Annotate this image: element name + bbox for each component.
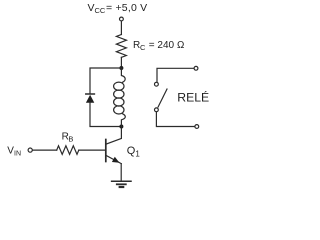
base bar: [105, 140, 107, 162]
relay terminal top right: [194, 66, 198, 70]
label Q1: [127, 145, 141, 158]
svg-text:C: C: [140, 43, 146, 52]
node top junction dot: [119, 66, 123, 70]
wire RB to Q1 base: [79, 149, 105, 151]
relay fixed contact upper: [155, 82, 159, 86]
node bottom junction dot: [119, 125, 123, 129]
svg-text:RELÉ: RELÉ: [177, 90, 209, 105]
svg-text:B: B: [68, 134, 73, 143]
svg-text:CC: CC: [95, 6, 106, 15]
label RB: [62, 131, 74, 143]
relay terminal bottom right: [195, 125, 199, 129]
collector lead: [106, 128, 122, 144]
resistor RC: [116, 35, 126, 58]
diode D1 flyback: [86, 94, 95, 103]
svg-text:Q: Q: [127, 145, 136, 157]
wire VCC terminal to RC: [120, 21, 122, 34]
relay movable contact lower: [155, 108, 159, 112]
transistor Q1: [106, 128, 122, 164]
relay common contact wire (top): [157, 68, 194, 82]
wire diode to bottom rung: [90, 103, 121, 127]
resistor RB: [57, 146, 79, 155]
label RC value: [133, 40, 185, 52]
svg-text:IN: IN: [14, 150, 21, 157]
wire RC to node top: [120, 57, 122, 68]
relay switch arm: [158, 89, 167, 107]
ground: [112, 181, 131, 187]
svg-text:V: V: [88, 2, 95, 14]
wire top rung to diode branch: [90, 68, 121, 93]
svg-text:1: 1: [135, 149, 140, 158]
emitter arrow: [112, 157, 120, 163]
svg-text:= +5,0 V: = +5,0 V: [106, 2, 147, 14]
relay wire lower to terminal: [156, 112, 194, 127]
net VCC label: [88, 2, 148, 15]
label VIN: [7, 145, 21, 157]
terminal VIN: [28, 148, 32, 152]
terminal VCC: [120, 17, 124, 21]
wire VIN to RB: [33, 149, 57, 151]
emitter lead: [106, 155, 121, 163]
svg-text:= 240 Ω: = 240 Ω: [149, 40, 185, 51]
wire emitter to ground: [120, 164, 122, 182]
inductor L1 relay coil: [114, 68, 126, 127]
